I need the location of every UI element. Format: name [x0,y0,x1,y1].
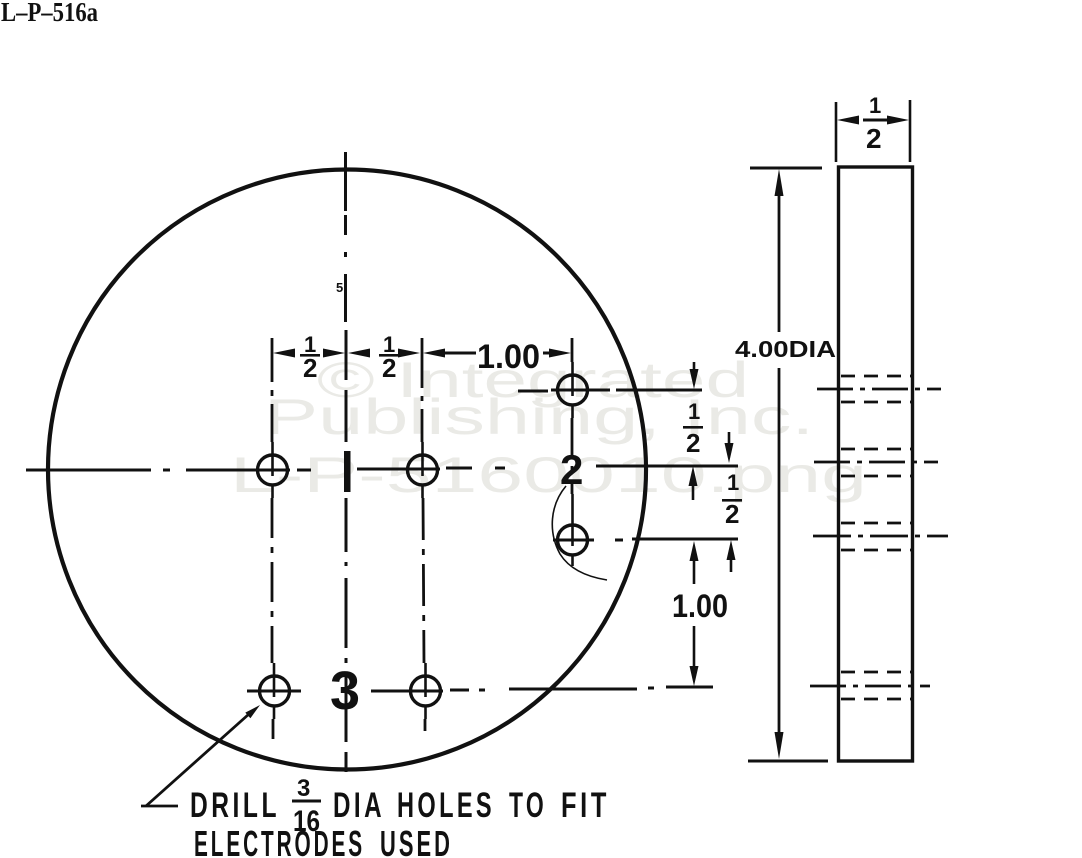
arrow down to row1 [690,369,699,389]
note text line 2 [194,823,453,858]
side view hole row 2 dashes [814,449,938,476]
arrow down to row4 (1.00 dim) [690,666,699,686]
side view rectangle [839,167,913,761]
right dim tick row4 [666,686,713,689]
arrow down to row2 (second half dim) [725,443,734,463]
svg-text:3: 3 [330,661,360,721]
svg-text:L–P–516a: L–P–516a [1,0,98,27]
hole 2-top [558,362,588,418]
hole 1-right [408,442,438,498]
top dimension line segments [443,352,553,355]
arrow up to row3 (1.00 dim) [690,541,699,561]
disc outline (front view) [48,170,646,770]
top dim fraction 1/2 (first) [300,332,320,383]
hole 3-right [411,663,441,719]
note fraction 3/16 [292,775,321,838]
svg-text:1.00: 1.00 [477,338,540,376]
right dim arrow tails [693,362,731,668]
svg-text:L-P-5160010.png: L-P-5160010.png [230,447,867,503]
4.00 dia dim arrows [775,169,784,759]
svg-text:2: 2 [560,446,583,493]
svg-text:4.00DIA: 4.00DIA [735,336,836,362]
svg-text:DRILL: DRILL [190,786,280,825]
svg-text:2: 2 [686,428,700,458]
vertical centerline of disc [344,152,348,772]
svg-text:TO: TO [509,786,547,825]
svg-text:2: 2 [382,353,396,383]
svg-text:3: 3 [297,775,310,802]
arrow up to row3 (second half dim) [727,540,736,560]
horizontal centerline of disc (row through holes 1) [26,466,738,470]
side view hole row 1 dashes [817,376,941,402]
svg-text:2: 2 [725,499,739,529]
leader arrow to hole 3-left [141,705,260,806]
right dim arrows [689,369,736,686]
arrow up to row2 [689,466,698,486]
svg-text:1: 1 [727,470,739,495]
svg-text:USED: USED [380,823,453,858]
arrow left at tick 272 [273,349,295,358]
svg-text:5: 5 [336,280,343,295]
leader curve from label 2 [552,486,607,580]
row line of holes 3 [247,688,654,691]
svg-text:HOLES: HOLES [397,786,495,825]
column centerline x=422 (holes 1-right / 3-right) [422,338,425,731]
right dim fraction 1/2 (lower) [722,470,742,529]
top dim fraction 1/2 (second) [379,332,399,383]
svg-text:2: 2 [303,353,317,383]
4.00 dia dim vertical line [778,192,781,736]
svg-text:1: 1 [869,93,881,118]
4.00 dia dim top tick [750,167,822,170]
svg-text:2: 2 [866,123,882,154]
hole 2-bottom [558,494,588,566]
column centerline x=572 (holes 2) [571,338,574,494]
note text line 1 [190,786,610,825]
arrow right at center tick [323,349,345,358]
arrow right at tick 571 [549,349,571,358]
hole 1-left [258,442,288,498]
svg-text:1.00: 1.00 [672,588,728,624]
row line of hole 2-top [518,390,702,391]
4.00 dia dim bottom tick [748,760,828,763]
row line of hole 2-bottom [553,539,738,540]
side view hole row 3 dashes [813,523,948,550]
svg-text:FIT: FIT [561,786,610,825]
arrow left of second segment [348,349,370,358]
arrow right at tick 420 [398,349,420,358]
arrow left at tick 423 [423,349,445,358]
svg-text:1: 1 [688,399,700,424]
hole 3-left [260,663,290,719]
side view width dim witness lines [836,100,910,162]
svg-text:ELECTRODES: ELECTRODES [194,823,365,858]
svg-text:DIA: DIA [333,786,385,825]
right dim fraction 1/2 (upper) [683,399,703,458]
side view width fraction 1/2 [863,93,887,154]
top dimension line arrows [273,349,571,358]
label 1 [344,451,351,492]
side view hole row 4 dashes [810,672,930,699]
side view width dim arrows [837,116,909,125]
column centerline x=272 (holes 1-left / 3-left) [272,338,273,739]
